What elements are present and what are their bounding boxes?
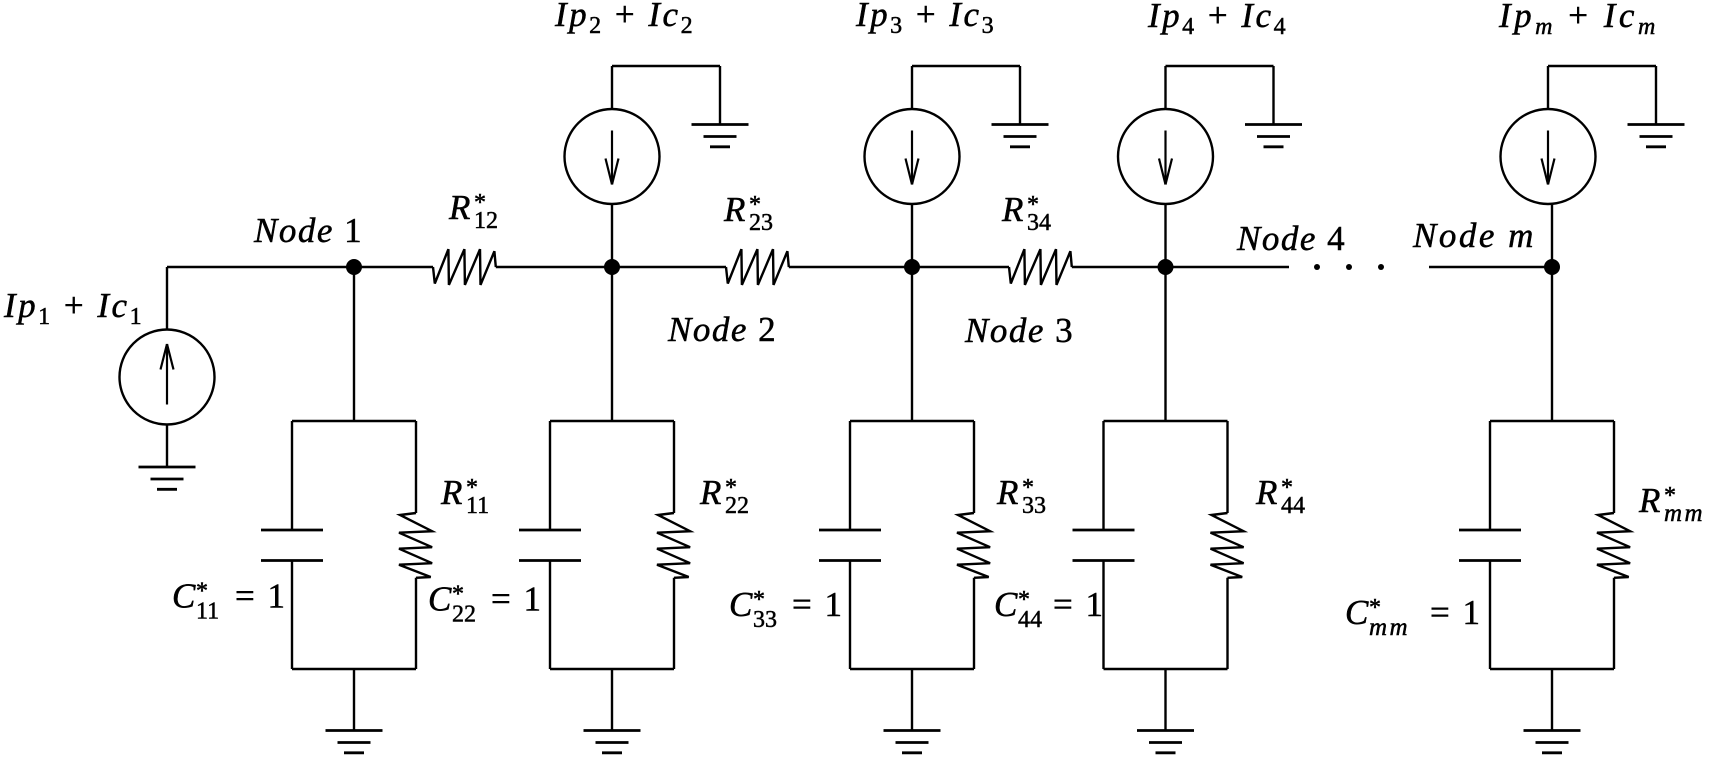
svg-text:mm: mm	[1664, 500, 1705, 527]
svg-text:R: R	[699, 473, 721, 512]
svg-text:R: R	[1638, 481, 1660, 520]
svg-text:R: R	[1255, 473, 1277, 512]
svg-text:33: 33	[753, 607, 777, 633]
svg-text:R: R	[440, 473, 462, 512]
svg-text:Ip2 + Ic2: Ip2 + Ic2	[554, 0, 695, 39]
svg-text:Node 1: Node 1	[253, 211, 363, 250]
svg-text:C: C	[729, 585, 753, 624]
svg-text:Node 4: Node 4	[1236, 219, 1346, 258]
svg-text:Node 3: Node 3	[964, 311, 1074, 350]
svg-text:Ip3 + Ic3: Ip3 + Ic3	[855, 0, 996, 39]
svg-text:R: R	[723, 190, 745, 229]
svg-text:22: 22	[452, 602, 476, 628]
svg-text:Node m: Node m	[1412, 216, 1536, 255]
svg-text:R: R	[996, 473, 1018, 512]
svg-text:Ip4 + Ic4: Ip4 + Ic4	[1147, 0, 1288, 40]
svg-text:44: 44	[1281, 493, 1305, 519]
svg-text:11: 11	[196, 599, 219, 625]
svg-text:33: 33	[1022, 493, 1046, 519]
svg-text:Ipm + Icm: Ipm + Icm	[1498, 0, 1659, 40]
svg-text:= 1: = 1	[235, 577, 287, 616]
svg-text:= 1: = 1	[1430, 593, 1482, 632]
svg-text:22: 22	[725, 493, 749, 519]
svg-text:34: 34	[1027, 210, 1051, 236]
svg-text:R: R	[448, 188, 470, 227]
svg-text:= 1: = 1	[792, 585, 844, 624]
svg-text:44: 44	[1018, 607, 1042, 633]
svg-text:23: 23	[749, 210, 773, 236]
svg-text:= 1: = 1	[491, 580, 543, 619]
svg-text:C: C	[172, 577, 196, 616]
svg-text:C: C	[428, 580, 452, 619]
svg-text:Ip1 + Ic1: Ip1 + Ic1	[3, 286, 144, 330]
svg-text:Node 2: Node 2	[667, 310, 777, 349]
svg-text:= 1: = 1	[1053, 585, 1105, 624]
svg-text:mm: mm	[1369, 614, 1410, 641]
svg-text:12: 12	[474, 208, 498, 234]
svg-text:C: C	[994, 585, 1018, 624]
svg-text:C: C	[1345, 593, 1369, 632]
svg-text:11: 11	[466, 493, 489, 519]
svg-text:R: R	[1001, 190, 1023, 229]
